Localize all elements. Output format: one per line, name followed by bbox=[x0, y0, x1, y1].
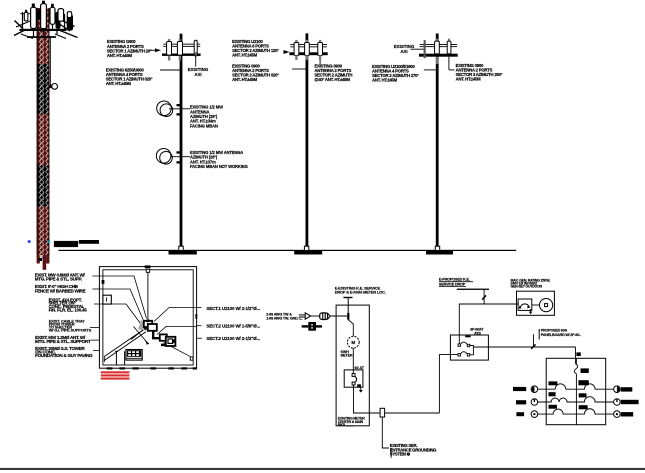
B4 leader bbox=[292, 68, 306, 70]
cluster L connector bbox=[153, 331, 161, 338]
service mast tee bbox=[343, 297, 352, 298]
leader L1 bbox=[99, 276, 146, 319]
B3 flag leader bbox=[284, 50, 290, 54]
wire breaker down and out bbox=[354, 385, 440, 413]
left terminal T3 bbox=[531, 411, 538, 418]
svg-text:SECT.2 U2100 W/ 1-5/8"Ø...: SECT.2 U2100 W/ 1-5/8"Ø... bbox=[206, 324, 260, 329]
monopole P1 mast bbox=[180, 34, 183, 247]
label block B5 EXISTING 0900 right bbox=[314, 63, 352, 82]
tower head rails bbox=[20, 29, 67, 31]
entrance terminal bar bbox=[347, 313, 349, 320]
left wall tick bbox=[102, 280, 105, 284]
P1 base plate bbox=[179, 246, 183, 250]
plan label B bbox=[35, 284, 86, 294]
right wall small box bbox=[190, 357, 193, 360]
battery rack bbox=[126, 350, 142, 361]
svg-text:MTG. PIPE & STL. SUPPORT: MTG. PIPE & STL. SUPPORT bbox=[35, 339, 91, 344]
crossing X leaders bbox=[134, 327, 148, 344]
svg-text:E-PROPOSED K.E.: E-PROPOSED K.E. bbox=[439, 278, 470, 282]
svg-text:ANT. HT.±45M: ANT. HT.±45M bbox=[232, 77, 258, 82]
monopole P2 rails bbox=[290, 43, 327, 46]
service drop label bbox=[266, 312, 302, 320]
left load labels bbox=[513, 387, 526, 391]
shelter inner wall bbox=[103, 270, 193, 365]
monopole P2 mast bbox=[306, 33, 309, 246]
tower base legs bbox=[37, 255, 50, 270]
leader L2 bbox=[99, 289, 143, 321]
leader R2 bbox=[157, 326, 197, 334]
equipment shelter plan outer wall bbox=[99, 267, 196, 369]
breaker rating labels left col bbox=[549, 381, 558, 385]
plan label D bbox=[49, 318, 92, 332]
meter panel enclosure bbox=[336, 305, 369, 426]
svg-text:MTG. PIPE & STL. SUPP.: MTG. PIPE & STL. SUPP. bbox=[35, 276, 82, 281]
P1 antenna A1 bbox=[168, 39, 170, 42]
microwave dish D1 bbox=[157, 101, 172, 116]
top stub square bbox=[146, 269, 150, 272]
plan label C bbox=[49, 297, 88, 312]
left terminal T1 bbox=[531, 386, 538, 393]
ATS enclosure bbox=[450, 335, 488, 360]
kWh meter M bbox=[347, 336, 359, 348]
P1 antenna A2 bbox=[179, 39, 181, 42]
svg-text:FOUNDATION & GUY PAVING: FOUNDATION & GUY PAVING bbox=[35, 353, 93, 358]
svg-text:@40° ANT. HT.±45M: @40° ANT. HT.±45M bbox=[314, 77, 350, 82]
bottom border line bbox=[0, 468, 645, 470]
svg-text:METER: METER bbox=[341, 354, 353, 358]
B6 leader bbox=[424, 69, 437, 71]
plan label E bbox=[35, 335, 91, 344]
svg-text:AXI: AXI bbox=[400, 49, 407, 54]
svg-text:GEN-SET OUTDOOR: GEN-SET OUTDOOR bbox=[511, 284, 543, 288]
label block B3 EXISTING U2100 bbox=[232, 39, 279, 58]
svg-text:SYSTEM ⊜: SYSTEM ⊜ bbox=[390, 451, 411, 456]
center drop line bbox=[147, 272, 149, 321]
microwave dish D2 bbox=[156, 149, 171, 164]
junction wire to gen and ATS bbox=[459, 304, 518, 344]
meter panel bottom label bbox=[338, 417, 365, 428]
panel bracket label bbox=[538, 329, 540, 340]
AXI P3 leader bbox=[411, 48, 424, 50]
kwh meter label bbox=[341, 350, 353, 358]
service drop symbols bbox=[299, 314, 305, 316]
breaker rating labels right col bbox=[578, 380, 588, 385]
B1 flag leader bbox=[150, 49, 156, 51]
P3 base plate bbox=[435, 246, 439, 250]
service line into panel bbox=[330, 315, 347, 317]
ATS upper contact bbox=[458, 344, 460, 346]
CT capsule symbol bbox=[320, 313, 328, 320]
wall top tick bbox=[145, 265, 151, 268]
leader L3 bbox=[99, 304, 140, 324]
svg-text:PANELBOARD W/ 2P-60..: PANELBOARD W/ 2P-60.. bbox=[541, 333, 581, 337]
monopole P3 rails bbox=[420, 43, 458, 46]
svg-text:DROP & E-KWH METER LOC.: DROP & E-KWH METER LOC. bbox=[335, 290, 386, 295]
svg-text:ANT. HT.±45M: ANT. HT.±45M bbox=[106, 81, 132, 86]
P2 antenna A1 bbox=[295, 40, 297, 43]
leader R3 diagonal bbox=[164, 343, 191, 357]
svg-text:60 AT: 60 AT bbox=[355, 366, 365, 370]
tower side rail line bbox=[49, 36, 51, 86]
tower lattice mast segments bbox=[37, 8, 50, 255]
scale bar red stripes bbox=[101, 371, 130, 379]
panel bus divider bbox=[575, 374, 577, 425]
wire meter to breaker bbox=[352, 348, 354, 373]
generator circle G bbox=[532, 304, 540, 306]
tower head panel antennas bbox=[24, 1, 73, 31]
fuse on wire bbox=[380, 408, 385, 417]
plan label A bbox=[35, 273, 86, 282]
ground drop wire bbox=[382, 417, 389, 448]
ATS output bus bbox=[470, 346, 474, 355]
svg-text:FACING MBAN NOT WORKING: FACING MBAN NOT WORKING bbox=[190, 164, 248, 169]
ATS lower feed wire bbox=[439, 355, 458, 413]
cable tray diagonals bbox=[104, 330, 143, 357]
monopole P3 mast bbox=[436, 34, 439, 247]
right wall tick bbox=[195, 314, 197, 319]
label dish D2 bbox=[190, 150, 248, 169]
utility drop wire bbox=[483, 290, 485, 304]
wire to meter bbox=[348, 320, 353, 337]
svg-text:W/ G.I. PIPE SUPPORTS: W/ G.I. PIPE SUPPORTS bbox=[49, 327, 92, 332]
breaker ground arrow bbox=[360, 387, 362, 390]
ground label bbox=[390, 443, 437, 457]
panelboard enclosure bbox=[546, 358, 606, 424]
gray arrow marker bbox=[138, 320, 147, 331]
label block B1 EXISTING G900 bbox=[107, 39, 152, 58]
P2 antenna A3 bbox=[319, 40, 321, 43]
svg-text:BKR. ____: BKR. ____ bbox=[338, 423, 354, 427]
ground line bbox=[58, 250, 516, 251]
svg-text:FIN. FLR. EL. 100.45: FIN. FLR. EL. 100.45 bbox=[49, 308, 88, 313]
P2 antenna A2 bbox=[306, 40, 308, 43]
right load labels bbox=[621, 387, 633, 391]
label dish D1 bbox=[190, 105, 223, 129]
svg-text:1-#8 AWG TW. GRD. L.: 1-#8 AWG TW. GRD. L. bbox=[266, 317, 302, 321]
tower side mount circle bbox=[49, 85, 51, 89]
svg-text:PROPOSED 60A: PROPOSED 60A bbox=[541, 329, 568, 333]
svg-text:ANT. HT.±45M: ANT. HT.±45M bbox=[107, 53, 133, 58]
fuse tick bbox=[482, 295, 486, 299]
svg-text:FENCE W/ BARBED WIRE: FENCE W/ BARBED WIRE bbox=[35, 289, 86, 294]
tap symbol below bbox=[308, 322, 316, 331]
svg-text:SERVICE DROP: SERVICE DROP bbox=[439, 282, 466, 286]
benchmark ticks bbox=[28, 240, 31, 243]
label block B4 EXISTING 0900 bbox=[232, 63, 279, 82]
P3 side bar bbox=[424, 40, 426, 58]
label AXI P1 bbox=[188, 67, 209, 77]
ATS label bbox=[470, 327, 484, 335]
breaker contacts bbox=[352, 374, 355, 377]
circuit row 3 bbox=[538, 409, 614, 414]
leader R1 bbox=[154, 308, 197, 322]
generator enclosure bbox=[517, 291, 555, 315]
monopole P1 rails bbox=[163, 43, 200, 46]
left wall box bbox=[103, 295, 111, 304]
SLD top label bbox=[335, 285, 386, 294]
panel main breaker jog bbox=[574, 364, 577, 374]
svg-text:SECT.3 U2100 W/ 2-1/2"Ø...: SECT.3 U2100 W/ 2-1/2"Ø... bbox=[206, 336, 260, 341]
svg-text:AXI: AXI bbox=[194, 72, 201, 77]
ATS tick bbox=[465, 336, 470, 338]
utility tap label E-PROPOSED bbox=[439, 278, 470, 287]
door frame columns bbox=[115, 351, 117, 365]
svg-text:SECT.1 U2100 W/ 2-1/2"Ø...: SECT.1 U2100 W/ 2-1/2"Ø... bbox=[206, 306, 260, 311]
gen breaker ground arrow bbox=[530, 309, 532, 312]
P3 antenna A1 bbox=[436, 39, 438, 42]
B2 leader bbox=[160, 69, 180, 71]
ground level text blocks bbox=[54, 241, 78, 247]
label AXI P3 bbox=[394, 44, 415, 54]
gen breaker box bbox=[518, 299, 532, 310]
P2 base plate bbox=[304, 246, 308, 250]
svg-text:ANT. HT.±45M: ANT. HT.±45M bbox=[372, 78, 398, 83]
label block B7 EXISTING 0900 sector3 bbox=[456, 63, 503, 82]
tower head antenna cluster bbox=[14, 12, 78, 39]
right terminal T4 bbox=[614, 386, 621, 393]
label block B2 EXISTING 6250/U900 bbox=[106, 67, 153, 86]
circuit row 1 bbox=[538, 384, 614, 389]
svg-text:FACING MBAN: FACING MBAN bbox=[190, 123, 218, 128]
panel feeder tick bbox=[531, 344, 535, 349]
P3 antenna A2 bbox=[448, 39, 450, 42]
svg-text:ANT. HT.±45M: ANT. HT.±45M bbox=[232, 53, 258, 58]
utility bus bar bbox=[457, 289, 489, 290]
equipment cluster center bbox=[144, 321, 157, 331]
circuit row 2 bbox=[538, 397, 614, 402]
main breaker box bbox=[344, 370, 363, 387]
P1 side element bbox=[194, 40, 197, 56]
right terminal T5 bbox=[614, 399, 621, 406]
footing dashes bbox=[107, 367, 197, 369]
feeder tick black bbox=[576, 352, 580, 356]
equipment cluster lower bbox=[160, 334, 176, 346]
plan label F bbox=[35, 346, 93, 358]
left terminal T2 bbox=[531, 399, 538, 406]
ATS lower contact bbox=[458, 354, 460, 356]
generator set label bbox=[511, 278, 551, 288]
ATS output wire bbox=[473, 346, 575, 348]
label block B6 EXISTING U2100/E1900 bbox=[372, 64, 419, 83]
svg-text:ANT. HT.±45M: ANT. HT.±45M bbox=[456, 77, 482, 82]
svg-text:M: M bbox=[351, 340, 355, 345]
feeder down into panel bbox=[575, 347, 577, 364]
right terminal T6 bbox=[614, 411, 621, 418]
B7 bracket leader bbox=[448, 57, 450, 70]
